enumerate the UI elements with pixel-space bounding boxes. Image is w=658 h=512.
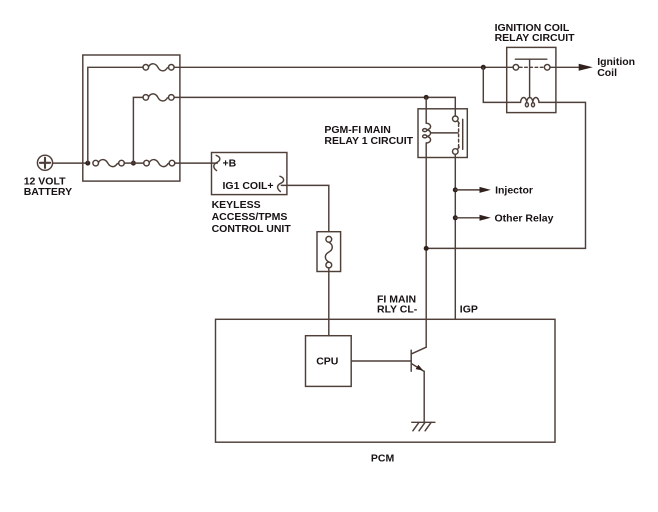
node B (second junction on battery row): [131, 161, 136, 166]
relay K2 movable contact dashed: [520, 66, 544, 68]
wire to injector arrow: [455, 189, 479, 191]
battery BT1 (12 volt battery): [37, 155, 52, 170]
svg-text:Coil: Coil: [597, 67, 617, 79]
fuse F4 (battery row right): [144, 160, 175, 167]
relay K1 coil (vertical, loops): [423, 123, 431, 143]
label Ignition Coil: [597, 56, 635, 79]
wire node F down to relay coil: [483, 67, 520, 102]
ignition coil relay box: [507, 47, 556, 112]
svg-text:CONTROL UNIT: CONTROL UNIT: [212, 223, 292, 235]
wire battery to fuse box: [53, 162, 88, 164]
PGM-FI main relay 1 box: [418, 109, 467, 158]
svg-text:Injector: Injector: [495, 184, 533, 196]
wire fuse F5 to CPU: [328, 268, 330, 336]
base bar: [410, 350, 412, 371]
arrow to Other Relay: [480, 215, 491, 221]
wire fuse F2 to PGM-FI relay: [174, 97, 455, 116]
CPU box: [306, 336, 352, 387]
terminal IG1 COIL+ (connector squiggle): [278, 176, 284, 191]
node D (injector tap): [453, 187, 458, 192]
wire node A up to fuse 1: [88, 67, 143, 163]
svg-text:IGP: IGP: [460, 304, 478, 316]
wire to other relay arrow: [455, 217, 479, 219]
wire emitter to ground: [423, 371, 425, 422]
wire relay K2 switch to ignition coil arrow: [550, 66, 579, 68]
relay K1 fixed bar: [462, 119, 464, 149]
relay K2 fixed bar: [515, 58, 546, 60]
wire relay K1 coil down (FI MAIN RLY CL-): [425, 143, 427, 347]
arrow to Ignition Coil: [579, 64, 593, 71]
keyless access/TPMS control unit box: [212, 153, 287, 195]
label IGNITION COIL RELAY CIRCUIT: [495, 22, 576, 44]
svg-text:CPU: CPU: [316, 356, 338, 368]
node G (coil return junction): [424, 246, 429, 251]
collector diagonal: [412, 347, 426, 354]
wire CPU to transistor base: [351, 360, 411, 362]
node C (fuse2 line to relay coil): [424, 95, 429, 100]
relay K1 bottom contact: [453, 147, 460, 154]
relay K2 right contact: [544, 65, 550, 71]
PCM box: [216, 319, 556, 442]
svg-text:BATTERY: BATTERY: [24, 186, 72, 198]
wire node B up to fuse 2: [133, 97, 143, 163]
svg-text:RELAY 1 CIRCUIT: RELAY 1 CIRCUIT: [324, 135, 413, 147]
relay K1 top contact: [453, 116, 460, 123]
svg-text:ACCESS/TPMS: ACCESS/TPMS: [212, 211, 288, 223]
relay K1 movable contact dashed: [458, 124, 460, 147]
fuse F2 (middle): [143, 94, 174, 101]
label 12 VOLT BATTERY: [24, 176, 72, 199]
label PGM-FI MAIN RELAY 1 CIRCUIT: [324, 124, 413, 147]
svg-text:PGM-FI MAIN: PGM-FI MAIN: [324, 124, 391, 136]
svg-text:Other Relay: Other Relay: [495, 212, 554, 224]
fuse F1 (top): [143, 64, 174, 71]
fuse F3 (battery row left): [93, 160, 124, 167]
node F (fuse1 line junction): [481, 65, 486, 70]
fuse box (under-hood fuse/relay box): [83, 55, 180, 181]
node E (other relay tap): [453, 215, 458, 220]
svg-text:+B: +B: [223, 158, 237, 170]
relay K2 armature line: [529, 59, 531, 97]
svg-text:RLY CL-: RLY CL-: [377, 304, 418, 316]
wire relay K1 switch down (IGP feed): [454, 154, 456, 319]
relay K2 left contact: [513, 65, 519, 71]
node A (battery feed junction): [85, 161, 90, 166]
wire between battery-row fuses: [124, 162, 143, 164]
wire fuse F1 to ignition relay contact: [174, 66, 513, 68]
wire relay K2 coil right down and across to node G: [429, 102, 586, 248]
svg-text:PCM: PCM: [371, 453, 395, 465]
emitter diagonal: [412, 364, 424, 371]
terminal +B (connector squiggle): [214, 155, 220, 170]
relay K2 coil (horizontal, loops): [521, 98, 539, 107]
svg-text:KEYLESS: KEYLESS: [212, 199, 261, 211]
wire node C down to relay coil: [425, 97, 427, 123]
label KEYLESS ACCESS/TPMS CONTROL UNIT: [212, 199, 292, 235]
wire IG1 COIL+ to lower fuse: [281, 185, 329, 231]
relay K1 armature line: [431, 132, 458, 134]
fuse F5 (IG1 line fuse): [317, 232, 341, 272]
wire fuse F4 to keyless unit +B: [175, 162, 218, 164]
transistor Q1 (NPN): [411, 347, 426, 371]
svg-text:IG1 COIL+: IG1 COIL+: [223, 180, 274, 192]
svg-text:RELAY CIRCUIT: RELAY CIRCUIT: [495, 32, 576, 44]
label FI MAIN RLY CL-: [377, 294, 418, 316]
emitter arrowhead: [416, 365, 424, 371]
ground: [412, 422, 435, 431]
arrow to Injector: [480, 187, 491, 193]
